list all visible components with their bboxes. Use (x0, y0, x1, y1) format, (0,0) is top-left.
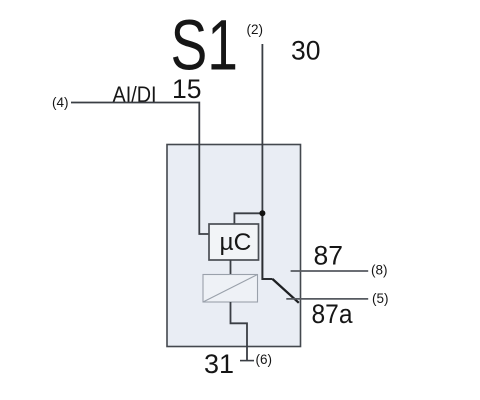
wire microcontroller to relay coil (230, 260, 232, 275)
svg-text:87: 87 (314, 241, 343, 271)
wire junction to contact (262, 213, 272, 279)
relay coil diagonal (203, 275, 258, 303)
svg-text:15: 15 (172, 74, 201, 104)
svg-text:(6): (6) (256, 352, 273, 367)
wire 30 to junction (261, 44, 263, 213)
wire supply branch to microcontroller (234, 213, 262, 224)
contact arm to 87a (273, 279, 299, 303)
svg-text:30: 30 (291, 36, 320, 66)
terminal 87 line (291, 270, 369, 272)
microcontroller U1 (209, 224, 259, 260)
ECU box (167, 145, 301, 347)
terminal 31 tick (240, 360, 254, 362)
svg-text:(4): (4) (52, 95, 69, 110)
node junction dot (259, 210, 265, 216)
wire coil to terminal 31 (231, 302, 248, 361)
svg-text:(5): (5) (372, 291, 389, 306)
terminal 87a line (286, 298, 368, 300)
svg-text:31: 31 (204, 349, 234, 379)
svg-text:87a: 87a (312, 299, 354, 329)
relay coil K1 (203, 275, 258, 303)
svg-text:(8): (8) (371, 263, 388, 278)
svg-text:µC: µC (220, 229, 252, 256)
svg-text:(2): (2) (247, 22, 264, 37)
wire 15 to microcontroller (71, 103, 209, 235)
